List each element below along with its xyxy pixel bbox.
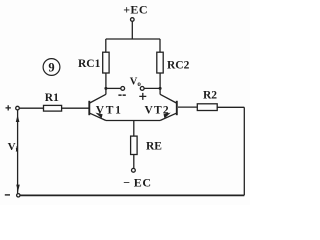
- svg-text:R2: R2: [203, 89, 217, 101]
- svg-text:R1: R1: [45, 92, 59, 104]
- svg-text:RC2: RC2: [167, 59, 190, 71]
- svg-text:+EC: +EC: [123, 3, 148, 17]
- svg-text:Vi: Vi: [8, 141, 18, 154]
- svg-text:VT2: VT2: [145, 105, 170, 117]
- svg-text:Vo: Vo: [130, 77, 142, 89]
- svg-text:VT1: VT1: [96, 105, 123, 117]
- svg-text:9: 9: [48, 61, 54, 75]
- svg-text:RE: RE: [146, 141, 162, 153]
- svg-text:− EC: − EC: [123, 176, 151, 190]
- svg-text:RC1: RC1: [78, 58, 101, 70]
